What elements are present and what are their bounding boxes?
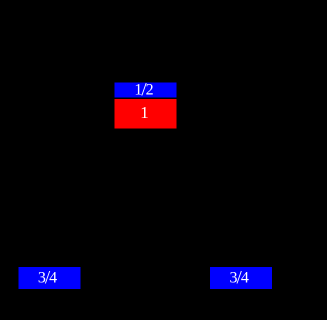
node box 3/4 (blue, bottom left) bbox=[19, 267, 81, 289]
node box 1/2 (blue, top of center stack) bbox=[115, 83, 177, 99]
node box 1 (red, center stack) bbox=[115, 99, 177, 129]
seam between 1/2 and 1 boxes bbox=[115, 98, 177, 99]
node box 3/4 (blue, bottom right) bbox=[210, 267, 272, 289]
